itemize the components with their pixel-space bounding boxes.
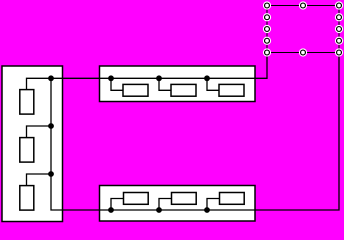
junction dot node C1: [108, 207, 114, 213]
connector J1 outline (top right): [267, 6, 339, 53]
pin 3: [335, 1, 343, 9]
pin 5: [335, 13, 343, 21]
module box U1 (left): [2, 66, 63, 222]
wire hook to R3 in U1: [27, 174, 52, 186]
pin 1: [263, 1, 271, 9]
resistor R9: [220, 193, 245, 205]
wire net left bus down and bottom bus to connector J1 pin: [51, 53, 339, 211]
resistor R4: [123, 84, 148, 96]
junction dot node A2: [48, 123, 54, 129]
resistor R3: [20, 186, 34, 211]
pin 9: [335, 37, 343, 45]
junction dot node A3: [48, 171, 54, 177]
resistor R5: [171, 84, 196, 96]
module box U2 (top middle): [100, 66, 256, 102]
junction dot node B2: [156, 75, 162, 81]
junction dot node A1: [48, 75, 54, 81]
resistor R7: [124, 193, 149, 205]
resistor R8: [172, 193, 197, 205]
pin 2: [299, 1, 307, 9]
wire hook to R7 in U3: [111, 199, 124, 211]
wire hook to R9 in U3: [207, 199, 220, 211]
connector J1 terminal pins: [263, 1, 343, 56]
resistor R2: [20, 138, 34, 163]
wire hook to R5 in U2: [159, 78, 171, 90]
pin 10: [263, 48, 271, 56]
junction dot node B3: [204, 75, 210, 81]
pin 12: [335, 48, 343, 56]
pin 6: [263, 25, 271, 33]
pin 11: [299, 48, 307, 56]
pin 7: [335, 25, 343, 33]
wire hook to R2 in U1: [27, 126, 52, 138]
junction dot node B1: [108, 75, 114, 81]
module box U3 (bottom middle): [100, 186, 256, 222]
resistor R6: [219, 84, 244, 96]
pin 8: [263, 37, 271, 45]
wire net top bus: U1 to U2 to connector J1 pin: [27, 53, 268, 90]
wire hook to R6 in U2: [207, 78, 219, 90]
wire hook to R8 in U3: [159, 199, 172, 211]
wire hook to R4 in U2: [111, 78, 123, 90]
junction dot node C2: [156, 207, 162, 213]
junction dot node C3: [204, 207, 210, 213]
resistor R1: [20, 90, 34, 115]
pin 4: [263, 13, 271, 21]
